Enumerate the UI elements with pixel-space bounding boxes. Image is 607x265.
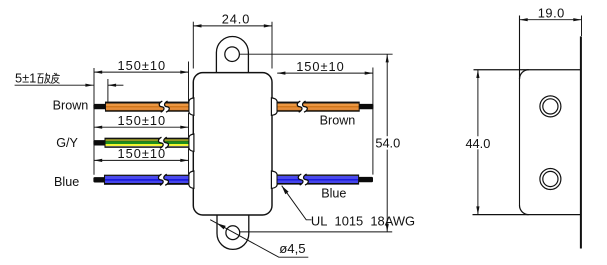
left bushing G/Y bbox=[189, 134, 194, 151]
dimension 150±10 brown left bbox=[94, 71, 189, 73]
side view hole top bbox=[540, 96, 561, 117]
leader UL 1015 18AWG bbox=[282, 186, 312, 220]
break symbol on Blue left bbox=[158, 174, 168, 185]
extension line right of dim3 bbox=[188, 148, 190, 174]
extension line common left (x=94) bbox=[93, 68, 95, 175]
dimension 54.0 bbox=[386, 54, 388, 136]
top mounting tab bbox=[216, 37, 248, 75]
right bushing blue bbox=[271, 171, 277, 188]
wire Brown left bbox=[93, 104, 106, 109]
side view hole bottom bbox=[540, 169, 561, 190]
svg-text:19.0: 19.0 bbox=[538, 6, 565, 21]
svg-text:150±10: 150±10 bbox=[117, 58, 166, 73]
svg-text:UL 1015 18AWG: UL 1015 18AWG bbox=[311, 213, 415, 228]
wire Blue right bbox=[358, 177, 373, 182]
svg-text:ø4,5: ø4,5 bbox=[279, 241, 305, 256]
extension line right of dim1 bbox=[188, 62, 190, 102]
top tab hole bbox=[225, 47, 240, 62]
svg-text:54.0: 54.0 bbox=[375, 136, 400, 151]
svg-text:24.0: 24.0 bbox=[222, 12, 251, 27]
dimension 19.0 bbox=[520, 19, 582, 21]
wire Blue left bbox=[93, 177, 105, 182]
svg-text:G/Y: G/Y bbox=[56, 136, 78, 150]
extension line 54.0 top (from top hole) bbox=[240, 53, 393, 55]
side view bottom-left fillet bbox=[520, 205, 529, 214]
extension line right of dim2 bbox=[188, 113, 190, 138]
svg-text:Brown: Brown bbox=[320, 114, 356, 128]
dimension 24.0 bbox=[193, 25, 272, 27]
break symbol on G/Y left bbox=[158, 137, 168, 148]
break symbol on Brown right bbox=[297, 101, 307, 112]
break symbol on Blue right bbox=[298, 174, 308, 185]
side view body left edge / 19.0 extension bbox=[519, 16, 521, 206]
side view body bottom edge bbox=[473, 214, 581, 216]
svg-text:5±1: 5±1 bbox=[15, 71, 36, 86]
side view top-left fillet bbox=[520, 70, 529, 79]
extension line right 150±10 (x=372.9) bbox=[372, 68, 374, 175]
svg-text:150±10: 150±10 bbox=[117, 113, 166, 128]
label 皮 glyph bbox=[51, 73, 60, 84]
extension line 54.0 bottom (from bottom hole) bbox=[240, 231, 392, 233]
dimension 44.0 bbox=[477, 70, 479, 137]
svg-text:Blue: Blue bbox=[321, 186, 346, 200]
bottom mounting tab bbox=[217, 213, 249, 249]
dimension 150±10 right bbox=[277, 72, 373, 74]
wire Brown right bbox=[359, 104, 373, 109]
bottom tab hole bbox=[226, 226, 240, 240]
right bushing brown bbox=[271, 98, 277, 115]
wire G/Y left bbox=[93, 140, 105, 145]
svg-text:150±10: 150±10 bbox=[296, 59, 345, 74]
extension line strip 5mm bbox=[107, 79, 109, 102]
dimension 150±10 G/Y left bbox=[94, 126, 189, 128]
extension lines 24.0 bbox=[192, 22, 194, 69]
side view mounting plate edge bbox=[580, 36, 582, 248]
dimension 150±10 blue left bbox=[94, 159, 189, 161]
svg-text:150±10: 150±10 bbox=[117, 146, 166, 161]
filter body bbox=[193, 73, 272, 215]
left bushing blue bbox=[189, 171, 194, 188]
break symbol on Brown left bbox=[159, 101, 169, 112]
19.0 right extension bbox=[581, 16, 583, 37]
svg-text:Blue: Blue bbox=[54, 175, 79, 189]
label 破 (strip) glyph bbox=[38, 73, 51, 84]
svg-text:44.0: 44.0 bbox=[465, 136, 490, 151]
svg-text:Brown: Brown bbox=[53, 99, 89, 113]
strip length leader 5±1破皮 bbox=[15, 84, 94, 86]
leader ø4,5 bbox=[210, 220, 308, 258]
side view body top edge bbox=[474, 69, 581, 71]
left bushing brown bbox=[189, 98, 194, 115]
